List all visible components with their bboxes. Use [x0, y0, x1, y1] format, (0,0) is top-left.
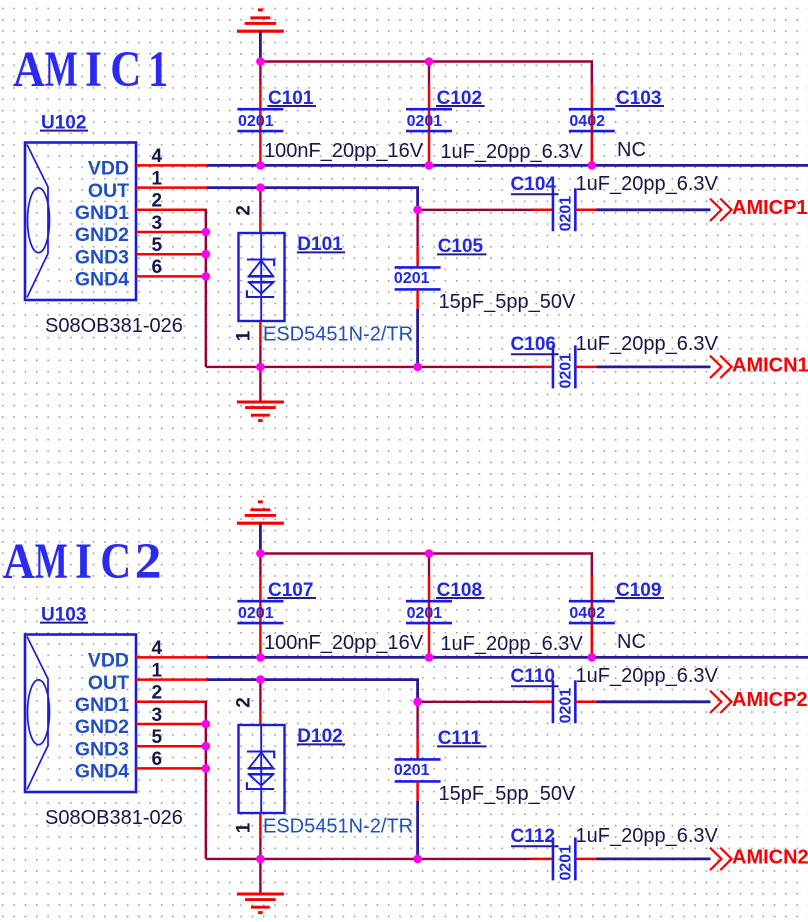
- wire AMICP2 net right: [597, 700, 711, 703]
- svg-text:1uF_20pp_6.3V: 1uF_20pp_6.3V: [440, 141, 583, 163]
- svg-text:GND3: GND3: [75, 738, 129, 760]
- junction L2: [413, 855, 422, 864]
- capacitor C103: [569, 88, 664, 131]
- pin C111.1: [416, 738, 419, 759]
- pin C112.2: [575, 858, 596, 861]
- svg-text:C: C: [100, 534, 131, 590]
- svg-text:NC: NC: [617, 139, 646, 161]
- junction E2: [588, 653, 597, 662]
- svg-text:4: 4: [152, 146, 163, 167]
- svg-text:1: 1: [234, 822, 255, 833]
- svg-text:1uF_20pp_6.3V: 1uF_20pp_6.3V: [576, 825, 719, 847]
- junction G: [413, 206, 422, 215]
- wire C105 lower: [416, 309, 419, 367]
- svg-text:4: 4: [152, 638, 163, 659]
- capacitor C108: [406, 580, 485, 623]
- pin U GND4 stub: [136, 767, 206, 770]
- junction E: [588, 161, 597, 170]
- pin C111.2: [416, 781, 419, 801]
- svg-text:6: 6: [152, 257, 163, 278]
- ground symbol (bottom): [237, 894, 284, 913]
- capacitor C105: [394, 236, 487, 289]
- wire AMICN2 net right: [597, 858, 711, 861]
- section title AMIC1: [13, 42, 168, 98]
- capacitor C111: [394, 728, 487, 781]
- svg-text:M: M: [35, 534, 68, 590]
- pin C104.2: [575, 209, 596, 212]
- TVS diode D102: [239, 725, 285, 813]
- svg-text:I: I: [85, 42, 102, 98]
- pin C101.1: [259, 84, 262, 165]
- svg-text:0402: 0402: [569, 605, 605, 622]
- pin C106.1: [532, 366, 554, 369]
- capacitor C110: [511, 666, 576, 723]
- junction B: [425, 57, 434, 66]
- pin C104.1: [532, 209, 554, 212]
- svg-text:AMICP2: AMICP2: [732, 689, 808, 711]
- pin C110.1: [532, 701, 554, 704]
- svg-text:VDD: VDD: [88, 650, 129, 672]
- svg-text:15pF_5pp_50V: 15pF_5pp_50V: [439, 783, 576, 805]
- svg-text:2: 2: [234, 205, 255, 216]
- svg-text:S08OB381-026: S08OB381-026: [45, 315, 183, 337]
- wire top bypass rail: [260, 62, 591, 85]
- svg-text:S08OB381-026: S08OB381-026: [45, 807, 183, 829]
- ground symbol (bottom): [237, 402, 284, 421]
- junction B2: [425, 549, 434, 558]
- svg-text:A: A: [3, 534, 35, 590]
- svg-text:VDD: VDD: [88, 158, 129, 180]
- junction F: [256, 183, 265, 192]
- section title AMIC2: [3, 534, 162, 590]
- junction C2: [256, 653, 265, 662]
- pin C102.1: [428, 84, 431, 165]
- svg-text:C110: C110: [511, 666, 555, 687]
- pin C110.2: [575, 701, 596, 704]
- junction L: [413, 363, 422, 372]
- svg-text:2: 2: [152, 191, 163, 212]
- wire AMICP1 net right: [597, 208, 711, 211]
- pin C106.2: [575, 366, 596, 369]
- wire OUT net: [207, 188, 418, 210]
- svg-text:3: 3: [152, 213, 163, 234]
- wire top bypass rail: [260, 554, 591, 577]
- pin C108.1: [428, 576, 431, 657]
- svg-text:1: 1: [234, 330, 255, 341]
- TVS diode D101: [239, 233, 285, 321]
- pin C103.1: [591, 84, 594, 165]
- junction F2: [256, 675, 265, 684]
- svg-text:1: 1: [148, 42, 168, 98]
- svg-text:3: 3: [152, 705, 163, 726]
- pin U GND3 stub: [136, 253, 206, 256]
- svg-text:AMICN2: AMICN2: [732, 846, 808, 868]
- svg-text:OUT: OUT: [88, 180, 129, 202]
- power ground symbol (top, net AVDD): [237, 10, 284, 31]
- pin U OUT stub: [136, 186, 207, 189]
- pin U VDD stub: [136, 164, 207, 167]
- capacitor C102: [406, 88, 485, 131]
- wire ground bus: [206, 366, 532, 368]
- svg-text:1uF_20pp_6.3V: 1uF_20pp_6.3V: [576, 173, 719, 195]
- svg-text:100nF_20pp_16V: 100nF_20pp_16V: [264, 140, 424, 162]
- pin U VDD stub: [136, 656, 207, 659]
- capacitor C109: [569, 580, 664, 623]
- pin U GND1 stub: [136, 701, 203, 704]
- svg-text:AMICP1: AMICP1: [732, 197, 808, 219]
- pin U GND2 stub: [136, 231, 206, 234]
- pin U GND3 stub: [136, 745, 206, 748]
- svg-text:I: I: [75, 534, 92, 590]
- svg-text:0402: 0402: [569, 113, 605, 130]
- pin C105.1: [416, 246, 419, 267]
- svg-text:1uF_20pp_6.3V: 1uF_20pp_6.3V: [576, 665, 719, 687]
- wire VDD rail: [207, 164, 808, 167]
- pin D102.1: [259, 813, 262, 838]
- svg-text:1uF_20pp_6.3V: 1uF_20pp_6.3V: [576, 333, 719, 355]
- wire C111 upper: [416, 702, 418, 739]
- wire D102 pin2 upper: [259, 680, 261, 710]
- svg-text:6: 6: [152, 749, 163, 770]
- svg-text:1: 1: [152, 168, 163, 189]
- junction I2: [202, 742, 211, 751]
- refdes label U102: [40, 113, 88, 134]
- svg-text:0201: 0201: [394, 270, 430, 287]
- svg-text:2: 2: [234, 697, 255, 708]
- svg-text:GND4: GND4: [75, 761, 129, 783]
- wire ground stub: [259, 367, 261, 401]
- svg-text:5: 5: [152, 727, 163, 748]
- capacitor C106: [511, 334, 576, 388]
- svg-text:C104: C104: [511, 174, 557, 195]
- junction K: [256, 363, 265, 372]
- wire D101 pin2 upper: [259, 188, 261, 218]
- svg-text:5: 5: [152, 235, 163, 256]
- refdes label D101: [297, 234, 345, 255]
- svg-text:AMICN1: AMICN1: [732, 354, 808, 376]
- microphone U103: [25, 635, 136, 793]
- refdes label D102: [297, 726, 345, 747]
- port AMICP2: [710, 689, 808, 713]
- port AMICN2: [710, 846, 808, 870]
- svg-text:0201: 0201: [394, 762, 430, 779]
- svg-text:2: 2: [152, 683, 163, 704]
- wire AMICP2 net left: [418, 701, 532, 703]
- svg-text:ESD5451N-2/TR: ESD5451N-2/TR: [263, 324, 413, 346]
- pin D102.2: [259, 710, 262, 726]
- svg-text:GND2: GND2: [75, 716, 129, 738]
- svg-text:OUT: OUT: [88, 672, 129, 694]
- wire GND elbow: [203, 210, 206, 367]
- wire VDD rail: [207, 656, 808, 659]
- svg-text:100nF_20pp_16V: 100nF_20pp_16V: [264, 632, 424, 654]
- port AMICN1: [710, 354, 808, 378]
- svg-text:1: 1: [152, 660, 163, 681]
- wire cap column A upper: [259, 62, 261, 85]
- junction J: [202, 272, 211, 281]
- pin D101.1: [259, 321, 262, 346]
- wire C111 lower: [416, 801, 419, 859]
- refdes label U103: [40, 605, 88, 626]
- wire D102 pin1 lower: [259, 838, 261, 859]
- svg-text:1uF_20pp_6.3V: 1uF_20pp_6.3V: [440, 633, 583, 655]
- pin C107.1: [259, 576, 262, 657]
- junction K2: [256, 855, 265, 864]
- junction C: [256, 161, 265, 170]
- capacitor C101: [237, 88, 316, 131]
- wire power stub: [259, 523, 262, 554]
- pin D101.2: [259, 218, 262, 234]
- svg-text:C106: C106: [511, 334, 556, 355]
- svg-text:0201: 0201: [407, 113, 443, 130]
- svg-text:ESD5451N-2/TR: ESD5451N-2/TR: [263, 816, 413, 838]
- wire ground bus: [206, 858, 532, 860]
- junction G2: [413, 698, 422, 707]
- junction D: [425, 161, 434, 170]
- svg-text:C112: C112: [511, 826, 555, 847]
- wire cap column B upper: [428, 62, 430, 85]
- svg-text:C: C: [110, 42, 141, 98]
- wire C105 upper: [416, 210, 418, 247]
- wire AMICN1 net right: [597, 365, 711, 368]
- wire power stub: [259, 31, 262, 62]
- power ground symbol (top, net AVDD): [237, 502, 284, 523]
- svg-text:0201: 0201: [238, 113, 274, 130]
- junction I: [202, 250, 211, 259]
- pin C105.2: [416, 289, 419, 309]
- pin U GND2 stub: [136, 723, 206, 726]
- junction A2: [256, 549, 265, 558]
- svg-text:0201: 0201: [558, 196, 575, 232]
- capacitor C104: [511, 174, 576, 231]
- svg-text:2: 2: [135, 534, 162, 590]
- capacitor C112: [511, 826, 576, 880]
- wire GND elbow: [203, 702, 206, 859]
- capacitor C107: [237, 580, 316, 623]
- pin U GND4 stub: [136, 275, 206, 278]
- junction H2: [202, 720, 211, 729]
- svg-text:M: M: [45, 42, 78, 98]
- microphone U102: [25, 143, 136, 301]
- svg-text:0201: 0201: [558, 845, 575, 881]
- svg-text:0201: 0201: [407, 605, 443, 622]
- wire OUT net: [207, 680, 418, 702]
- svg-text:GND2: GND2: [75, 224, 129, 246]
- svg-text:15pF_5pp_50V: 15pF_5pp_50V: [439, 291, 576, 313]
- svg-text:GND1: GND1: [75, 694, 129, 716]
- svg-text:0201: 0201: [238, 605, 274, 622]
- wire ground stub: [259, 859, 261, 893]
- wire cap column B upper: [428, 554, 430, 577]
- junction H: [202, 228, 211, 237]
- pin U GND1 stub: [136, 209, 203, 212]
- pin C112.1: [532, 858, 554, 861]
- svg-text:GND1: GND1: [75, 202, 129, 224]
- svg-text:GND4: GND4: [75, 269, 129, 291]
- svg-text:0201: 0201: [558, 688, 575, 724]
- pin C109.1: [591, 576, 594, 657]
- wire cap column A upper: [259, 554, 261, 577]
- svg-text:GND3: GND3: [75, 246, 129, 268]
- pin U OUT stub: [136, 678, 207, 681]
- port AMICP1: [710, 197, 808, 221]
- svg-text:A: A: [13, 42, 45, 98]
- junction D2: [425, 653, 434, 662]
- svg-text:NC: NC: [617, 631, 646, 653]
- junction A: [256, 57, 265, 66]
- wire D101 pin1 lower: [259, 346, 261, 367]
- junction J2: [202, 764, 211, 773]
- svg-text:0201: 0201: [558, 353, 575, 389]
- wire AMICP1 net left: [418, 209, 532, 211]
